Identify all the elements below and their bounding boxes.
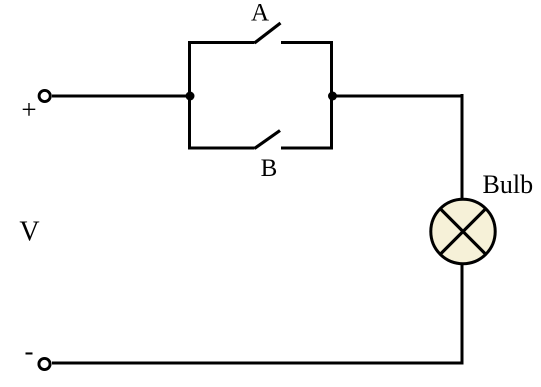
wire bottom return to negative terminal <box>52 362 464 365</box>
svg-text:B: B <box>261 155 278 182</box>
svg-text:V: V <box>19 216 39 247</box>
wire node 2 to top-right corner <box>332 95 463 98</box>
terminal - (negative, open circle) <box>39 358 50 369</box>
svg-text:Bulb: Bulb <box>483 170 534 199</box>
wire right vertical branch <box>330 41 333 150</box>
wire bulb to bottom-right corner <box>461 264 464 365</box>
node 2 (right junction dot) <box>328 92 337 101</box>
switch A lever <box>255 23 281 43</box>
wire positive terminal to node 1 <box>52 95 190 98</box>
wire bottom branch left to switch B <box>188 147 255 150</box>
terminal + (positive, open circle) <box>39 90 50 101</box>
wire left vertical branch <box>188 41 191 150</box>
svg-text:A: A <box>251 0 269 27</box>
lamp bulb symbol <box>431 199 495 263</box>
node 1 (left junction dot) <box>186 92 195 101</box>
svg-text:-: - <box>25 336 34 366</box>
wire down to bulb <box>461 94 464 199</box>
switch B lever <box>255 131 281 149</box>
wire top branch left to switch A <box>188 41 255 44</box>
wire bottom branch right of switch B <box>281 147 333 150</box>
svg-text:+: + <box>21 95 36 125</box>
wire top branch right of switch A <box>281 41 333 44</box>
